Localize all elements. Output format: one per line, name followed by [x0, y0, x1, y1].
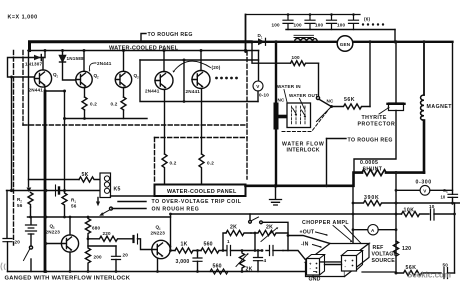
node cap bank taps [287, 13, 290, 16]
svg-text:120: 120 [402, 246, 411, 252]
relay K5 [100, 173, 111, 198]
generator GEN [337, 36, 353, 52]
switch (series) [249, 214, 251, 220]
dashed panel outline left [22, 51, 24, 126]
transistor T5 2N441 (bank) [192, 71, 210, 89]
wire Q5 emitter [69, 252, 71, 271]
svg-text:GND: GND [309, 277, 321, 281]
svg-text:3: 3 [137, 76, 139, 80]
wire chopper to ref [325, 264, 342, 266]
svg-text:56: 56 [17, 203, 23, 208]
dashed panel right [246, 51, 248, 179]
wire Q4 emitter [157, 258, 159, 271]
svg-text:2K: 2K [230, 225, 237, 231]
svg-text:MAGNET: MAGNET [427, 104, 453, 110]
svg-text:1: 1 [56, 75, 58, 79]
wire chopper drop [352, 186, 354, 243]
svg-text:VOLTAGE: VOLTAGE [372, 252, 398, 258]
svg-text:20: 20 [123, 253, 129, 258]
svg-text:10: 10 [441, 195, 446, 200]
svg-text:200: 200 [94, 255, 103, 260]
svg-text:20: 20 [15, 240, 21, 245]
svg-text:100: 100 [315, 23, 324, 28]
capacitor 1 [225, 250, 228, 252]
wire Q2 emitter [84, 88, 86, 98]
bank continuation dots [215, 77, 218, 80]
svg-text:56K: 56K [344, 97, 355, 103]
svg-text:TO ROUGH REG: TO ROUGH REG [348, 138, 393, 144]
svg-text:2N441: 2N441 [29, 88, 44, 93]
svg-text:1: 1 [261, 35, 263, 39]
capacitor C6 [448, 194, 458, 197]
wire to cap 20 [88, 245, 116, 247]
svg-text:4: 4 [264, 258, 267, 263]
svg-text:100: 100 [337, 23, 346, 28]
wire bank top line [140, 59, 259, 61]
capacitor 100 (3) [327, 15, 337, 30]
svg-text:2N441: 2N441 [97, 61, 112, 66]
svg-text:SHUNT: SHUNT [363, 167, 383, 173]
svg-text:0.2: 0.2 [90, 102, 97, 107]
svg-text:10: 10 [429, 204, 435, 209]
node base feed [10, 76, 13, 79]
main thick supply bus [30, 42, 251, 51]
wire 56K riser [369, 42, 371, 107]
wire Q1 emitter to Q2 base [45, 90, 65, 92]
svg-text:CHOPPER AMPL: CHOPPER AMPL [302, 220, 349, 226]
meter A line [353, 229, 368, 231]
wire right edge drop [452, 42, 454, 204]
svg-text:A: A [371, 228, 375, 233]
svg-text:0.2: 0.2 [111, 102, 118, 107]
wire -IN feed [283, 251, 307, 262]
resistor 0.2 (T4 emitter) [162, 154, 167, 186]
wire Q3 emitter [123, 88, 125, 97]
wire Q3 collector [123, 51, 125, 72]
wire 2K line [223, 233, 226, 251]
relay contacts [97, 198, 99, 202]
wire emitter return line [65, 118, 148, 120]
capacitor 20 (mid) [115, 246, 117, 256]
node bus corner [28, 49, 31, 52]
potentiometer 2K (upper) [251, 230, 288, 235]
wire main center drop (thick) [275, 42, 277, 186]
wire feedback line [353, 213, 402, 215]
svg-text:680: 680 [92, 226, 101, 231]
node rail junctions [45, 270, 48, 273]
svg-text:GEN: GEN [340, 42, 351, 47]
svg-text:-IN: -IN [301, 242, 309, 248]
wire interlock stub (thick) [276, 115, 287, 119]
chopper amplifier slab (3D) [306, 244, 370, 263]
node interstage junctions [29, 216, 32, 219]
resistor 10K [402, 211, 430, 216]
node Q2 tap [83, 49, 86, 52]
svg-text:2N223: 2N223 [46, 230, 61, 235]
svg-text:TO ROUGH REG: TO ROUGH REG [148, 32, 193, 38]
wire to rough reg (mid) [326, 139, 328, 187]
resistor 560 [201, 248, 226, 253]
ground rail [8, 271, 306, 273]
svg-text:0.2: 0.2 [207, 161, 214, 166]
wire output line to edge [396, 202, 460, 204]
wire bank base line [140, 60, 258, 102]
svg-text:56: 56 [71, 204, 77, 209]
node T5 tap [200, 49, 203, 52]
wire ground bus (thick) [246, 173, 363, 186]
capacitor bank bottom bus [286, 29, 395, 31]
svg-text:0.0005: 0.0005 [360, 160, 378, 166]
svg-text:0.2: 0.2 [170, 161, 177, 166]
svg-text:0-10: 0-10 [259, 93, 269, 98]
wire T5 collector [200, 51, 202, 71]
svg-text:1N1307: 1N1307 [25, 62, 43, 67]
capacitor 3000 [197, 251, 199, 258]
capacitor bank top bus [246, 14, 361, 16]
node T4 tap [163, 49, 166, 52]
svg-text:Seekic.com: Seekic.com [407, 271, 451, 280]
resistor 0.2 (Q2) [82, 97, 87, 110]
svg-text:K=X 1,000: K=X 1,000 [8, 15, 38, 21]
svg-text:220: 220 [103, 231, 112, 236]
wire T5 emitter drop [201, 89, 203, 154]
box water flow interlock [287, 103, 311, 128]
svg-text:THYRITE: THYRITE [362, 115, 387, 121]
node D2 tap [61, 49, 64, 52]
wire interstage vertical [64, 91, 66, 191]
resistor 560 (rail) [210, 269, 228, 274]
resistor 1K [175, 248, 201, 253]
svg-text:+OUT: +OUT [300, 230, 315, 236]
resistor 100 (sense loop) [250, 40, 253, 43]
svg-text:NC: NC [278, 98, 286, 103]
wire +OUT feed [288, 236, 330, 244]
ref voltage source box (3D) [342, 251, 363, 256]
diode 1N1307 [34, 55, 41, 60]
wire diode row [8, 51, 46, 78]
transistor Q1 2N441 [34, 70, 51, 87]
magnet [423, 42, 425, 95]
wire Q1 emitter (thick drop to rail) [44, 86, 46, 91]
scan mark [1, 263, 5, 270]
label TO ROUGH REG (top) [141, 34, 146, 42]
battery (bias) [55, 185, 57, 196]
inductor filter choke [294, 35, 314, 37]
svg-text:1N1588: 1N1588 [67, 56, 85, 61]
wire bias line y194 [7, 190, 101, 192]
svg-text:WATER OUT: WATER OUT [289, 93, 318, 98]
svg-text:2N441: 2N441 [186, 89, 201, 94]
dashed funnel top [155, 137, 248, 139]
capacitor (to -IN) [266, 250, 269, 252]
wire left feed [11, 77, 13, 191]
wire Q5 collector [69, 217, 71, 235]
node Q3 tap [122, 49, 125, 52]
svg-text:NC: NC [327, 99, 335, 104]
svg-text:TO OVER-VOLTAGE TRIP COIL: TO OVER-VOLTAGE TRIP COIL [152, 199, 242, 205]
wire bus to R2 wiper [28, 51, 30, 187]
capacitor 100 (2) [305, 15, 315, 30]
wire interstage line y217 [28, 216, 171, 218]
wire switch feed [171, 213, 354, 215]
svg-text:1: 1 [227, 239, 230, 244]
svg-text:2N223: 2N223 [151, 231, 166, 236]
transistor T4 2N441 (bank) [155, 72, 173, 90]
svg-text:PROTECTOR: PROTECTOR [358, 122, 396, 128]
capacitor 50 [444, 268, 448, 279]
dashed linkage to NC switch [282, 111, 328, 132]
capacitor 100 (4) [349, 15, 359, 30]
svg-text:5K: 5K [82, 172, 89, 178]
dashed panel bottom [23, 124, 247, 126]
svg-text:3,000: 3,000 [176, 259, 190, 265]
resistor 680 [85, 217, 90, 237]
svg-text:560: 560 [204, 242, 213, 248]
resistor 0.2 (Q3) [121, 97, 126, 110]
transistor Q2 2N441 [76, 71, 92, 87]
wire T4 collector [163, 51, 165, 72]
potentiometer R2 56 [28, 193, 33, 208]
svg-text:390K: 390K [364, 195, 380, 201]
ground [275, 186, 277, 199]
wire collector node [168, 244, 176, 251]
meter V 0-10 [258, 51, 260, 82]
wire pot junction drop [254, 233, 256, 251]
svg-text:2: 2 [97, 76, 99, 80]
node Q1 tap [44, 49, 47, 52]
resistor 120 [393, 241, 398, 256]
resistor 390K [353, 200, 396, 205]
node junction [222, 249, 225, 252]
node cap-bank drop [244, 49, 247, 52]
wire Q5 base [46, 243, 61, 245]
svg-text:50: 50 [443, 263, 449, 268]
svg-text:2K: 2K [266, 225, 273, 231]
diode 1N1588 [60, 51, 76, 81]
svg-text:100: 100 [294, 23, 303, 28]
svg-text:REF: REF [373, 245, 384, 251]
svg-text:100: 100 [272, 23, 281, 28]
chopper module box [307, 255, 325, 259]
box WATER-COOLED PANEL label [155, 185, 246, 197]
resistor 2K (fixed) [226, 230, 251, 235]
wire Q4 collector riser [170, 214, 172, 247]
svg-text:1K: 1K [181, 242, 188, 248]
svg-text:SOURCE: SOURCE [372, 258, 396, 264]
resistor R1 56 [62, 191, 67, 218]
wire right lower vertical [454, 203, 456, 273]
svg-text:0-300: 0-300 [416, 180, 432, 186]
capacitor 4 [257, 251, 259, 258]
svg-text:ON ROUGH REG: ON ROUGH REG [152, 207, 200, 213]
resistor 0.2 (T5 emitter) [199, 154, 204, 186]
resistor 220 [88, 236, 133, 241]
svg-text:(6): (6) [364, 17, 370, 22]
wire ref vertical [395, 173, 397, 273]
wire Q1 collector [42, 58, 44, 70]
svg-text:GANGED WITH WATERFLOW INTERLOC: GANGED WITH WATERFLOW INTERLOCK [5, 275, 131, 281]
capacitor 10 [431, 209, 435, 220]
battery (left column) [30, 217, 32, 225]
svg-text:10K: 10K [404, 208, 415, 214]
wire Q2 collector [83, 51, 85, 72]
svg-text:WATER-COOLED PANEL: WATER-COOLED PANEL [109, 46, 179, 52]
svg-text:WATER-COOLED PANEL: WATER-COOLED PANEL [167, 189, 237, 195]
resistor 56K [332, 104, 371, 109]
svg-text:100: 100 [292, 55, 301, 60]
capacitor 100 (1) [283, 15, 293, 30]
svg-text:K5: K5 [114, 187, 121, 193]
dashed ganged linkage [13, 51, 15, 246]
resistor 56K (bottom) [396, 270, 441, 275]
svg-text:WATER IN: WATER IN [277, 84, 301, 89]
dashed funnel left [154, 138, 156, 184]
svg-text:560: 560 [213, 264, 222, 270]
resistor 0.0005 shunt [362, 170, 386, 176]
switch (ganged) [29, 246, 32, 249]
capacitor (coupling) [132, 236, 134, 242]
svg-text:INTERLOCK: INTERLOCK [287, 148, 320, 154]
potentiometer 2K (lower) [239, 251, 244, 272]
capacitor 20 (left) [6, 191, 8, 239]
wire collector bus [28, 50, 259, 52]
svg-text:(20): (20) [212, 65, 221, 70]
svg-text:2N441: 2N441 [145, 89, 160, 94]
wire T4 emitter drop [164, 90, 166, 154]
resistor 200 [85, 237, 90, 272]
thyrite protector [395, 42, 397, 103]
resistor 5K [79, 177, 100, 182]
transistor Q3 2N441 [115, 71, 131, 87]
